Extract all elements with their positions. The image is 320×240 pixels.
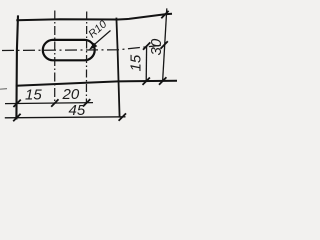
- svg-text:45: 45: [69, 102, 86, 119]
- tick at top of 30 dim: [161, 11, 168, 18]
- plate bottom edge with right extension line: [16, 81, 177, 86]
- svg-text:20: 20: [62, 86, 80, 103]
- tick at centerline crossing of 30 dim: [161, 41, 168, 48]
- plate right edge (extends down as extension line): [116, 18, 119, 118]
- stray scan mark lower left: [0, 88, 7, 91]
- tick at x=122 on 45 dim line: [119, 113, 126, 120]
- bottom overall dimension line (45): [5, 117, 126, 118]
- slot (obround hole) R10: [43, 40, 95, 60]
- tick at x=87 on 15/20 dim line: [83, 99, 90, 106]
- svg-text:15: 15: [25, 87, 42, 104]
- vertical centerline through left arc (extension for 15/20 dims): [54, 11, 56, 105]
- right 15 dimension line (centerline to bottom): [145, 46, 147, 82]
- svg-text:15: 15: [128, 54, 145, 71]
- R10 arrowhead: [89, 43, 98, 50]
- tick at top of right 15 dim: [143, 42, 150, 49]
- R10 leader line: [92, 31, 111, 48]
- right 30 dimension line (top to bottom): [163, 8, 167, 81]
- tick at bottom of 30 dim: [159, 77, 166, 84]
- plate top edge with right extension line: [16, 14, 172, 21]
- tick at x=17 on 45 dim line: [13, 114, 20, 121]
- bottom dimension line (15 / 20): [5, 103, 93, 104]
- tick at x=55 on 15/20 dim line: [51, 99, 58, 106]
- tick at x=17 on 15/20 dim line: [13, 100, 20, 107]
- tick at bottom of right 15 dim: [143, 78, 150, 85]
- horizontal slot centerline (extends right as extension line): [2, 45, 165, 51]
- vertical centerline through right arc (extension for 20 dim): [85, 12, 87, 105]
- plate left edge (extends down as extension line): [16, 15, 18, 119]
- svg-text:30: 30: [148, 38, 165, 55]
